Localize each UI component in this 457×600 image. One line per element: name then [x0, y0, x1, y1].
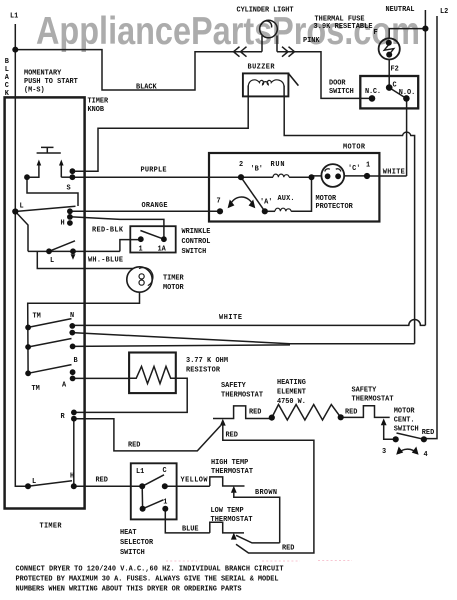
svg-text:HIGH TEMP: HIGH TEMP [211, 459, 248, 467]
heat selector C contact [162, 483, 168, 489]
svg-text:C: C [163, 467, 167, 475]
svg-text:THERMOSTAT: THERMOSTAT [211, 516, 253, 524]
svg-text:SAFETY: SAFETY [352, 386, 378, 394]
timer bottom L contact [25, 483, 31, 489]
wrinkle control switch box [130, 226, 175, 252]
svg-text:MOTOR: MOTOR [316, 195, 338, 203]
wire brown tail into low temp arrow [236, 535, 280, 543]
svg-text:YELLOW: YELLOW [181, 476, 209, 484]
wire from timer B contact [73, 345, 290, 347]
motor terminal 7 [217, 208, 223, 214]
neutral vertical line [424, 10, 426, 325]
wire drop to timer motor top [37, 251, 133, 268]
wire wh-blue up into wrinkle switch 1 [120, 240, 141, 252]
terminal W arrow [71, 254, 76, 260]
heating element left node [269, 415, 275, 421]
svg-text:MOTOR: MOTOR [163, 284, 185, 292]
safety thermostat 2 arrow [381, 418, 387, 425]
svg-text:RED: RED [96, 476, 108, 484]
node push button left contact [24, 174, 30, 180]
terminal lower L dot [46, 248, 52, 254]
wire fuse bottom to door switch C [388, 60, 390, 88]
resistor box 3.77k [129, 353, 176, 394]
wire L1 vertical line into timer [15, 24, 28, 486]
motor RUN winding [273, 174, 289, 177]
pink scan artifact dots [166, 560, 352, 563]
svg-text:SWITCH: SWITCH [120, 549, 145, 557]
svg-text:C: C [393, 82, 397, 90]
wire blue from contact 1 to low temp thermostat [165, 509, 210, 533]
terminal W dot [70, 248, 76, 254]
svg-text:1: 1 [139, 245, 143, 253]
wire to motor cent switch 3 [384, 424, 396, 439]
svg-text:THERMOSTAT: THERMOSTAT [211, 468, 253, 476]
svg-text:BUZZER: BUZZER [248, 63, 276, 71]
svg-text:'B': 'B' [251, 165, 263, 173]
svg-text:TM: TM [32, 385, 40, 393]
high temp thermostat bump [210, 477, 245, 486]
buzzer striker diagonal [288, 73, 298, 85]
svg-text:N.O.: N.O. [399, 89, 416, 97]
wire black lamp right side to door switch N.C. (pink) [277, 52, 372, 99]
svg-text:L1: L1 [136, 468, 144, 476]
cylinder light filament curl [261, 21, 271, 28]
svg-text:HEAT: HEAT [120, 529, 137, 537]
wire red-blk H to wrinkle switch 1A [70, 217, 164, 239]
cylinder light left leg [261, 36, 263, 52]
motor protector curls [325, 169, 341, 172]
svg-text:RED: RED [422, 429, 434, 437]
timer motor inner coil circles [139, 268, 153, 286]
svg-text:2: 2 [239, 161, 243, 169]
wire black from L1 junction to cylinder light [15, 50, 262, 90]
timer bottom switch arm L to H [28, 481, 72, 487]
svg-text:L1: L1 [10, 13, 18, 21]
svg-text:KNOB: KNOB [88, 106, 105, 114]
motor winding junction [309, 174, 315, 180]
wire lower contact row L W [28, 250, 120, 252]
door switch C contact [386, 84, 393, 91]
svg-text:'C': 'C' [348, 165, 360, 173]
motor AUX winding [275, 208, 291, 211]
svg-text:PINK: PINK [303, 37, 320, 45]
motor cent switch arm [397, 433, 424, 439]
connector chevrons left of lamp [234, 47, 247, 57]
svg-text:H: H [61, 220, 65, 228]
door switch box [360, 76, 418, 108]
wire push button left contact run [27, 177, 78, 206]
svg-text:1: 1 [163, 498, 167, 506]
svg-text:NUMBERS WHEN WRITING ABOUT THI: NUMBERS WHEN WRITING ABOUT THIS DRYER OR… [16, 585, 242, 593]
svg-text:PROTECTOR: PROTECTOR [316, 203, 354, 211]
thermal fuse element stroke [384, 45, 394, 55]
svg-text:PURPLE: PURPLE [141, 167, 167, 175]
heat selector arm L1-C [142, 475, 164, 487]
svg-text:CONTROL: CONTROL [182, 238, 211, 246]
high temp thermostat arrow [231, 486, 237, 493]
motor arc arrowheads [228, 200, 256, 209]
terminal S dots [70, 168, 76, 174]
svg-text:RED-BLK: RED-BLK [92, 226, 124, 234]
timer TM arm 1 [28, 319, 71, 328]
timer lower L arm [49, 241, 75, 252]
push button arrowheads [37, 160, 64, 166]
wire white timer N to neutral [72, 319, 425, 325]
terminal H dots [67, 208, 73, 214]
svg-text:4: 4 [424, 451, 428, 459]
svg-text:ELEMENT: ELEMENT [277, 388, 306, 396]
motor box [209, 153, 379, 222]
resistor zigzag [129, 366, 176, 383]
motor protector circle [321, 164, 344, 187]
terminal R dots [71, 410, 77, 416]
svg-text:RED: RED [249, 408, 261, 416]
svg-text:ORANGE: ORANGE [142, 202, 168, 210]
wire red R lower to diagonal riser [74, 419, 221, 451]
heating element zigzag [272, 405, 341, 421]
svg-text:3.77 K OHM: 3.77 K OHM [186, 357, 228, 365]
svg-text:WRINKLE: WRINKLE [182, 228, 211, 236]
wire fuse top to neutral junction [389, 29, 425, 39]
svg-text:F: F [374, 29, 378, 37]
motor switch arm 2 to A [241, 177, 265, 211]
push to start arrows [27, 164, 61, 177]
heat selector lower contact [140, 506, 146, 512]
svg-text:RUN: RUN [271, 161, 285, 169]
svg-text:C: C [5, 82, 9, 90]
wire protector leads [312, 175, 368, 177]
motor arc between 7 and A [230, 197, 254, 206]
heat selector 1 contact [162, 506, 168, 512]
terminal N dots [69, 323, 75, 329]
svg-text:L2: L2 [440, 8, 448, 16]
wire RUN to junction [289, 176, 311, 178]
wire red outer loop to low temp thermostat [223, 421, 314, 553]
svg-text:L: L [5, 66, 9, 74]
heating element right node [338, 414, 344, 420]
terminal A dots [70, 369, 76, 375]
motor terminal 2 [238, 174, 244, 180]
L2 vertical line to motor cent. switch 4 [424, 16, 437, 439]
svg-text:LOW TEMP: LOW TEMP [211, 507, 244, 515]
safety thermostat 2 bump [341, 406, 390, 418]
svg-text:(M-S): (M-S) [24, 86, 45, 94]
svg-text:N.C.: N.C. [365, 88, 381, 96]
svg-text:WHITE: WHITE [219, 314, 242, 322]
svg-text:PROTECTED BY MAXIMUM 30 A. FUS: PROTECTED BY MAXIMUM 30 A. FUSES. ALWAYS… [16, 576, 279, 584]
svg-text:PUSH TO START: PUSH TO START [24, 78, 78, 86]
buzzer coil [248, 80, 284, 87]
connector chevrons right of lamp [282, 47, 295, 57]
motor contact A [262, 208, 268, 214]
svg-text:RED: RED [226, 432, 238, 440]
svg-text:B: B [74, 357, 78, 365]
svg-text:TM: TM [33, 313, 41, 321]
svg-text:3.9K RESETABLE: 3.9K RESETABLE [314, 23, 373, 31]
svg-text:'A': 'A' [260, 198, 272, 206]
svg-text:RED: RED [345, 408, 357, 416]
svg-text:CONNECT DRYER TO 120/240 V.A.C: CONNECT DRYER TO 120/240 V.A.C.,60 HZ. I… [16, 566, 284, 574]
svg-text:SELECTOR: SELECTOR [120, 539, 154, 547]
svg-text:SWITCH: SWITCH [394, 425, 419, 433]
svg-text:SAFETY: SAFETY [221, 382, 247, 390]
wrinkle switch contact 1 [138, 236, 144, 242]
svg-text:N: N [70, 312, 74, 320]
heat selector L1 contact [139, 483, 145, 489]
wire buzzer left lead to timer S [74, 96, 248, 171]
door switch N.O. contact [403, 95, 410, 102]
svg-text:RESISTOR: RESISTOR [186, 366, 221, 374]
svg-text:1A: 1A [158, 245, 167, 253]
safety thermostat 1 bump [213, 406, 272, 419]
timer L arm to H [15, 206, 75, 211]
svg-text:TIMER: TIMER [40, 523, 63, 531]
wire 2 to RUN [241, 176, 273, 178]
buzzer box [243, 73, 289, 96]
svg-text:3: 3 [382, 448, 386, 456]
svg-text:NEUTRAL: NEUTRAL [386, 6, 415, 14]
cylinder light bulb circle [260, 20, 278, 38]
svg-text:HEATING: HEATING [277, 379, 306, 387]
svg-text:CENT.: CENT. [394, 417, 415, 425]
wire AUX up to junction [291, 177, 311, 211]
wire motor white terminal to door N.O. drop [367, 175, 407, 177]
TM contact dots [25, 325, 31, 331]
svg-text:H: H [70, 473, 74, 481]
svg-text:7: 7 [217, 197, 221, 205]
terminal B dot [70, 344, 76, 350]
buzzer coil legs [248, 86, 284, 97]
wire A to resistor [73, 377, 130, 379]
svg-text:SWITCH: SWITCH [182, 248, 207, 256]
svg-text:WHITE: WHITE [383, 169, 405, 177]
svg-text:MOTOR: MOTOR [394, 408, 416, 416]
svg-text:THERMOSTAT: THERMOSTAT [221, 391, 263, 399]
push to start button cap [37, 147, 61, 153]
svg-text:SWITCH: SWITCH [329, 88, 354, 96]
timer TM arm 3 [28, 365, 71, 374]
wire orange H to motor 7 [70, 210, 220, 212]
thermal fuse circle F2 [379, 38, 400, 59]
svg-text:4750 W.: 4750 W. [277, 398, 306, 406]
svg-text:L: L [50, 257, 54, 265]
heat selector L1 to lower contact [141, 486, 143, 509]
node L1 top junction [12, 47, 18, 53]
wrinkle switch contact 1A [161, 236, 167, 242]
wire red bottom H to heat selector L1 [74, 485, 142, 487]
wire buzzer right lead long run to right side [284, 96, 414, 343]
wire yellow C to high temp thermostat [165, 485, 210, 487]
motor protector contact dots [325, 173, 331, 179]
wrinkle switch arm [140, 231, 164, 240]
svg-text:L: L [32, 478, 36, 486]
motor cent switch arc arrowheads [396, 447, 418, 455]
svg-text:BLUE: BLUE [182, 526, 199, 534]
wire brown from high temp arrow loop [234, 492, 280, 543]
svg-text:RED: RED [128, 441, 140, 449]
svg-text:BLACK: BLACK [136, 84, 158, 92]
door switch arm C to N.O. [389, 88, 406, 99]
svg-text:F2: F2 [391, 66, 399, 74]
svg-text:L: L [20, 202, 24, 210]
motor cent switch contact 3 [393, 436, 399, 442]
wire timer motor bottom to TM bracket [28, 292, 140, 373]
wire A to AUX [265, 210, 275, 212]
svg-text:S: S [67, 185, 71, 193]
wire L down to lower L contact [15, 212, 28, 252]
wire door switch N.O. down to white wire [406, 98, 408, 176]
svg-text:TIMER: TIMER [163, 275, 185, 283]
motor cent switch contact 4 [421, 436, 427, 442]
timer bottom H contact [71, 483, 77, 489]
door switch N.C. contact [369, 95, 376, 102]
timer motor circle [127, 267, 152, 292]
timer box [5, 97, 85, 508]
motor cent switch arc [399, 449, 417, 453]
thermal fuse inner dots [386, 40, 392, 46]
motor terminal 1 [364, 173, 370, 179]
wire purple S to motor 2 [72, 176, 241, 178]
timer TM arm 2 [28, 339, 71, 348]
svg-text:MOTOR: MOTOR [343, 143, 366, 151]
svg-text:MOMENTARY: MOMENTARY [24, 70, 62, 78]
svg-text:1: 1 [366, 162, 370, 170]
wire push button right contact to S [61, 176, 70, 178]
svg-text:WH.-BLUE: WH.-BLUE [88, 256, 123, 264]
node timer L [12, 208, 18, 214]
svg-text:THERMOSTAT: THERMOSTAT [352, 395, 394, 403]
node neutral junction [422, 26, 428, 32]
svg-text:RED: RED [282, 544, 294, 552]
svg-text:DOOR: DOOR [329, 79, 346, 87]
wire timer R lower down to bottom H contact [73, 419, 75, 487]
svg-text:B: B [5, 58, 9, 66]
low temp thermostat bump [210, 522, 244, 533]
heat selector lower arm [143, 500, 164, 509]
svg-text:TIMER: TIMER [88, 98, 110, 106]
safety thermostat 1 arrow [220, 419, 226, 426]
svg-text:CYLINDER LIGHT: CYLINDER LIGHT [237, 7, 294, 15]
cylinder light right leg [276, 36, 278, 52]
wire from N lower dot sloping to right vertical [72, 333, 414, 344]
heat selector switch box [131, 463, 177, 519]
low temp thermostat arrow [231, 533, 237, 540]
svg-text:BROWN: BROWN [255, 489, 277, 497]
svg-text:AUX.: AUX. [278, 195, 295, 203]
wire resistor out to timer R [74, 378, 187, 412]
